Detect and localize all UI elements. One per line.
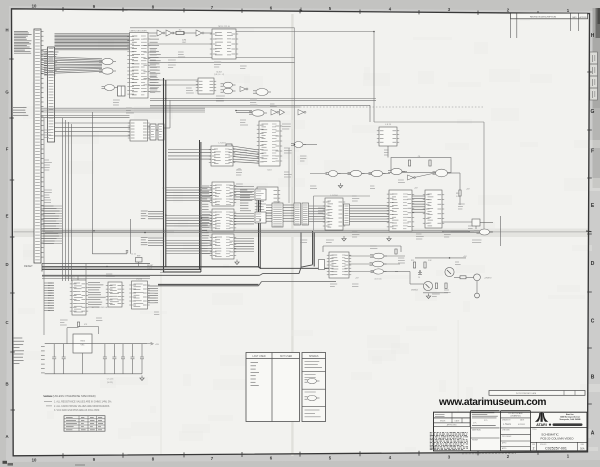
label 10PL: [107, 379, 114, 385]
wire gate inputs: [55, 57, 103, 73]
IC U13: [257, 121, 282, 172]
video jack J2: [474, 274, 481, 281]
gate U27a: [370, 253, 387, 259]
svg-text:F: F: [591, 149, 594, 155]
IC U16: [210, 182, 236, 206]
gate cluster U21a: [255, 189, 266, 200]
AND gate U8a: [99, 58, 116, 64]
reference box: [136, 256, 143, 267]
title cells row2: [434, 418, 471, 423]
wire vertical right: [500, 216, 502, 246]
resistor R21: [67, 322, 99, 344]
wire groups to U16-U18: [166, 188, 212, 254]
svg-text:LAST USED: LAST USED: [252, 355, 266, 358]
wire U20-U24: [349, 206, 389, 222]
drawn by: [502, 419, 526, 427]
pin labels J1 bottom: [43, 206, 60, 244]
svg-text:APPROVED: APPROVED: [447, 424, 458, 427]
svg-text:CNTRL DECODER: CNTRL DECODER: [129, 31, 147, 33]
inverter U6b: [166, 30, 174, 36]
capacitors C7-C16: [52, 344, 144, 374]
node labels +5V GND: [13, 338, 24, 364]
ground: [235, 260, 239, 265]
bus horizontal mid: [42, 231, 484, 233]
gate cluster U21b: [255, 212, 266, 223]
wire down: [369, 105, 371, 122]
wire vertical mid: [288, 148, 290, 203]
gate U23e: [433, 169, 451, 177]
svg-text:10: 10: [32, 457, 37, 462]
bus line mid-low: [42, 267, 301, 275]
subsidiary bar: [553, 423, 583, 426]
svg-text:B: B: [591, 375, 595, 381]
svg-text:(DRAWING): (DRAWING): [510, 414, 521, 417]
svg-text:PCB 20 COLUMN VIDEO: PCB 20 COLUMN VIDEO: [540, 437, 574, 441]
wire U1 outputs long: [148, 58, 295, 63]
wire to Q2 base: [395, 272, 423, 285]
label R16: [456, 193, 461, 198]
resistor R16: [459, 173, 461, 205]
wire groups right of stack: [168, 150, 254, 252]
table SPARES: [302, 353, 326, 422]
crease mark at frame: [586, 230, 592, 233]
transistor Q1: [445, 267, 454, 276]
IC U2: [128, 120, 150, 141]
svg-text:(+5 or 1K): (+5 or 1K): [66, 276, 75, 279]
svg-text:(1,8,2,4...-2): (1,8,2,4...-2): [214, 74, 225, 76]
svg-text:ATARI: ATARI: [536, 423, 546, 427]
IC U29: [106, 282, 124, 307]
IC U28: [70, 280, 88, 315]
node labels IRQ EXTSEL CROMSEL: [13, 108, 28, 116]
wire reg gnd: [82, 353, 84, 374]
svg-text:B: B: [5, 381, 8, 386]
wire 7M clock: [236, 31, 374, 33]
label Q2: [411, 290, 418, 292]
pin labels right mid B: [141, 238, 164, 246]
inverter U7c: [240, 87, 248, 92]
node label RESET: [24, 264, 33, 268]
ground: [338, 183, 342, 188]
svg-text:7M CL 2 PL 4L: 7M CL 2 PL 4L: [218, 26, 230, 28]
svg-text:+5V: +5V: [155, 344, 159, 346]
XOR gate U11a: [249, 110, 267, 116]
title cells row1: [434, 412, 471, 418]
note underlines: [44, 396, 52, 406]
IC U18: [210, 234, 236, 259]
svg-text:4/21/81: 4/21/81: [518, 424, 526, 426]
pin block U26: [319, 260, 325, 270]
outline box section 2: [314, 196, 371, 230]
svg-text:L.Harck: L.Harck: [503, 423, 512, 426]
svg-text:F: F: [6, 146, 9, 151]
svg-text:C: C: [591, 319, 595, 325]
svg-text:A0 RFSD CN2 UH?: A0 RFSD CN2 UH?: [92, 306, 109, 309]
svg-text:2N3904: 2N3904: [411, 290, 418, 292]
pin labels U16-U18: [202, 186, 211, 254]
latch U10b: [158, 124, 164, 140]
connector P1 stubs: [41, 32, 44, 258]
label: [66, 276, 75, 279]
outline box section 3: [323, 246, 401, 252]
resistor R19: [454, 276, 474, 279]
size cell: [532, 444, 547, 451]
node labels CARDSEL/address bus: [14, 32, 32, 54]
note 1: [54, 401, 112, 404]
regulator VR1: [73, 334, 92, 353]
svg-text:DATE: DATE: [455, 419, 460, 422]
wire J1-U2: [55, 123, 131, 136]
svg-text:LS244: LS244: [136, 279, 143, 281]
wire +5 rail: [415, 256, 467, 258]
connector pins bottom: [44, 283, 54, 311]
wire xor in: [236, 111, 252, 113]
power label: [355, 278, 359, 280]
notes table IC TYPE VCC GND: [64, 416, 105, 432]
wire long pair 2: [150, 105, 484, 107]
NOR gate U7d: [253, 89, 271, 96]
power labels: [414, 188, 470, 191]
buffer U20b: [344, 204, 350, 225]
svg-text:H: H: [591, 33, 595, 39]
number row cells: [531, 442, 588, 451]
IC U25: [423, 190, 444, 228]
bus vertical pair A: [164, 78, 166, 272]
svg-text:R15: R15: [411, 260, 414, 262]
wire: [184, 32, 196, 34]
inverters U11b: [271, 110, 285, 116]
svg-text:E: E: [6, 213, 9, 218]
wire: [173, 32, 176, 34]
legal notice paragraph: [430, 433, 468, 450]
outline box top section: [130, 28, 295, 203]
wire reset pair: [42, 277, 150, 279]
bus horizontal RESET/heavy: [42, 267, 329, 272]
title cells row3: [434, 423, 471, 427]
notes heading: [43, 394, 96, 398]
rev cell: [580, 444, 585, 450]
misc value labels: [44, 50, 474, 325]
jack shield: [475, 281, 480, 298]
wire bus A0-A12: [55, 34, 130, 50]
label caption: [92, 306, 109, 309]
ground rail: [423, 293, 448, 299]
gates U7b: [221, 82, 236, 94]
bus vertical pair C: [259, 189, 261, 269]
svg-text:D: D: [5, 262, 8, 267]
resistors R5 R6: [408, 156, 431, 166]
svg-text:R16: R16: [456, 193, 459, 195]
IC U15: [209, 143, 235, 167]
wire U24-U25: [412, 196, 425, 212]
wire long pair: [150, 99, 376, 101]
svg-text:A: A: [5, 434, 8, 439]
svg-text:(U4-9): (U4-9): [147, 268, 152, 270]
svg-text:H: H: [5, 27, 8, 32]
wires to U28: [78, 264, 86, 281]
flip-flop U22: [377, 124, 399, 146]
wire vertical from connector: [42, 118, 44, 335]
svg-text:OSC: OSC: [182, 42, 187, 44]
label VIDEO: [484, 278, 492, 280]
IC U24: [387, 190, 414, 231]
svg-text:CHECKED: CHECKED: [502, 430, 511, 432]
note 3: [54, 409, 100, 412]
inverter U23d: [408, 175, 416, 180]
bus vertical pair D: [301, 231, 314, 267]
gate U23c: [388, 168, 405, 174]
svg-text:C: C: [5, 320, 8, 325]
title text: [540, 432, 574, 440]
svg-text:ENGR: ENGR: [440, 420, 446, 422]
bus pair LS244 out: [158, 282, 336, 286]
wire stubs U30: [148, 286, 158, 303]
pin labels: [88, 283, 106, 308]
wire reset run: [42, 263, 150, 265]
power label +5V: [237, 169, 241, 171]
wire U27 out: [384, 256, 406, 272]
label CLK: [214, 72, 225, 77]
svg-text:REV: REV: [581, 444, 584, 446]
signoff labels: [502, 430, 512, 451]
title row: [531, 427, 588, 430]
pin labels J1 top: [44, 52, 60, 75]
svg-text:MATERIAL: MATERIAL: [472, 429, 481, 432]
gate U23f: [326, 171, 341, 177]
wire U1-inv: [148, 32, 157, 34]
wire vertical runs left: [63, 112, 131, 281]
wire stubs lower: [41, 206, 62, 244]
material finish labels: [472, 429, 481, 442]
IC U19: [272, 203, 283, 227]
inverter U6c: [196, 30, 204, 36]
address: [560, 413, 581, 421]
pin labels U14: [240, 189, 255, 211]
do not scale: [508, 412, 523, 418]
drawing number: [545, 447, 567, 451]
AND gate U8b: [99, 68, 116, 74]
atari column divider: [530, 411, 532, 451]
svg-text:C7-C16: C7-C16: [107, 379, 114, 381]
svg-text:D: D: [591, 261, 595, 267]
decoder U9: [118, 86, 126, 96]
gate U23b: [369, 170, 386, 176]
wire to latch: [148, 80, 198, 85]
svg-text:APPRVD: APPRVD: [580, 16, 588, 19]
sign-off column: [501, 411, 531, 451]
gate U23a: [348, 170, 365, 176]
AND gate U8c: [102, 85, 118, 91]
svg-text:C1 22: C1 22: [131, 254, 136, 256]
pin labels right mid A: [141, 211, 164, 219]
resistors R14 R18: [435, 283, 447, 289]
svg-text:SPARES: SPARES: [309, 355, 319, 358]
svg-text:(10 PL): (10 PL): [107, 382, 114, 384]
wire U19 out: [283, 205, 294, 221]
IC U26 4016: [327, 252, 351, 278]
wire fan P1-J1: [41, 49, 48, 75]
latch U7: [196, 78, 216, 94]
svg-text:L.S.74: L.S.74: [385, 124, 392, 126]
title block outline: [434, 412, 588, 451]
wire: [204, 32, 212, 34]
IC U30: [129, 279, 149, 310]
wire bus DB: [41, 108, 205, 112]
resistor pack RP2: [302, 203, 309, 225]
tolerance column: [471, 411, 500, 451]
svg-text:3 PL: 3 PL: [484, 420, 488, 422]
resistor R20: [395, 249, 397, 254]
gate cluster U31: [472, 219, 493, 242]
connector gnd pins: [41, 347, 45, 373]
svg-text:1. ALL RESISTANCE VALUES ARE I: 1. ALL RESISTANCE VALUES ARE IN OHMS 1/4…: [54, 401, 112, 404]
wire U19 in: [266, 205, 272, 221]
svg-text:+VIDEO: +VIDEO: [484, 278, 492, 280]
svg-text:3. VCC AND GND PINS ARE AS FOL: 3. VCC AND GND PINS ARE AS FOLLOWS:: [54, 409, 100, 412]
resistor R17: [424, 260, 432, 268]
label RESET net: [147, 265, 154, 270]
grounds: [342, 236, 391, 241]
svg-text:12M: 12M: [182, 40, 186, 42]
wire CS lines: [41, 116, 130, 118]
svg-text:FINISH: FINISH: [472, 440, 479, 442]
svg-text:G: G: [591, 109, 595, 115]
svg-text:(1/2 U2): (1/2 U2): [375, 279, 382, 281]
outline box section: [374, 122, 484, 231]
IC U14: [255, 187, 280, 213]
svg-text:PROJ ENGR: PROJ ENGR: [502, 436, 512, 438]
svg-text:A: A: [591, 431, 595, 437]
svg-text:CLK/2: CLK/2: [216, 72, 222, 74]
IC U1 control decoder: [127, 31, 150, 99]
connector J1: [48, 47, 55, 142]
svg-text:50A: 50A: [580, 448, 585, 451]
note 2: [54, 405, 110, 408]
connector P1: [34, 29, 41, 263]
wire U26-U27: [349, 256, 374, 272]
svg-text:www.atarimuseum.com: www.atarimuseum.com: [438, 397, 546, 408]
svg-text:7805: 7805: [80, 341, 86, 343]
ATARI wordmark: [536, 423, 551, 427]
inverter U11c: [298, 110, 306, 116]
wire vertical: [373, 32, 375, 123]
ground VR1: [140, 376, 144, 381]
inverter U6a: [157, 30, 165, 36]
resistor pack RP1: [294, 203, 301, 225]
flip-flop U5: [210, 26, 238, 59]
crystal X2: [176, 29, 184, 34]
wire +5V rail: [45, 343, 147, 345]
svg-text:DATE: DATE: [572, 16, 577, 19]
svg-text:RESET: RESET: [24, 264, 33, 268]
svg-text:10: 10: [32, 3, 37, 8]
transistor Q2: [423, 281, 432, 290]
wire U1-U5: [148, 43, 212, 45]
svg-text:IN PROPRIETARY DATA: IN PROPRIETARY DATA: [516, 392, 537, 395]
svg-text:NOT USED: NOT USED: [280, 355, 293, 358]
wire U25 to cluster: [388, 146, 472, 232]
wire gate chain: [310, 172, 460, 178]
svg-text:REVISION DESCRIPTION: REVISION DESCRIPTION: [530, 17, 556, 19]
label: [375, 279, 382, 281]
bus vertical pair B: [200, 140, 201, 272]
capacitor C1: [126, 251, 136, 256]
proprietary strip: [489, 391, 585, 396]
IC U20: [323, 195, 345, 230]
Atari fuji logo: [535, 413, 548, 422]
table LAST USED NOT USED: [246, 353, 300, 422]
wire fan U12-U13: [232, 146, 259, 163]
IC U17: [210, 209, 236, 231]
latch U10a: [150, 124, 156, 140]
svg-text:2 PL: 2 PL: [473, 423, 477, 425]
svg-text:L.S.244: L.S.244: [331, 195, 339, 197]
label 12M: [182, 40, 187, 45]
svg-text:C025257-001: C025257-001: [545, 447, 567, 451]
buffer U12: [226, 144, 232, 163]
power arrow +5V: [147, 342, 159, 346]
svg-text:DWG NO: DWG NO: [540, 444, 547, 446]
svg-text:Sunnyvale, Calif. 94086: Sunnyvale, Calif. 94086: [560, 418, 581, 421]
wire to U20: [309, 206, 326, 222]
pin labels U1 right: [150, 36, 161, 92]
svg-text:2: 2: [533, 447, 535, 451]
gate U27c: [371, 269, 387, 274]
one-shot outline: [391, 158, 451, 173]
capacitor C6: [418, 273, 422, 280]
wire gnd rail: [45, 373, 142, 375]
svg-text:2. ALL CAPACITANCE VALUES ARE: 2. ALL CAPACITANCE VALUES ARE MICROFARAD…: [54, 405, 110, 408]
svg-text:C6: C6: [418, 277, 420, 279]
wire latch links: [148, 100, 171, 130]
gate U27b: [370, 261, 387, 267]
AND gate U14a: [291, 142, 317, 148]
resistor R15: [411, 260, 416, 268]
tolerance text: [472, 413, 498, 426]
svg-text:L.S.374: L.S.374: [219, 143, 227, 145]
watermark www.atarimuseum.com: [438, 397, 546, 408]
